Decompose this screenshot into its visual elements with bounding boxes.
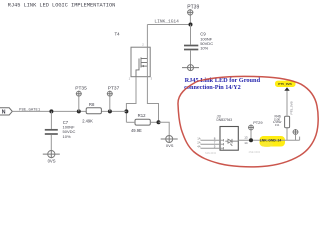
wire gate rail left — [12, 110, 86, 112]
svg-text:2.49K: 2.49K — [82, 118, 93, 123]
testpoint PT28 — [293, 129, 299, 140]
svg-text:13: 13 — [244, 136, 248, 140]
ground 0VS below C9 — [182, 65, 199, 71]
svg-text:49.9E: 49.9E — [131, 128, 142, 133]
svg-text:PT29: PT29 — [253, 120, 262, 125]
svg-text:1%: 1% — [275, 123, 280, 127]
yellow highlighter marks (under ink) — [260, 136, 286, 147]
svg-text:PT39: PT39 — [187, 5, 199, 11]
svg-text:LNK_GND_14: LNK_GND_14 — [260, 138, 282, 142]
wire to ground — [159, 122, 170, 135]
channel bar — [140, 57, 142, 67]
ground 0VS below R12 — [161, 136, 178, 143]
node junction at PT39 — [189, 23, 193, 27]
port tag P8E_GATE1 — [0, 108, 12, 115]
wire top LINK net — [147, 24, 190, 26]
pin stubs inside J3 — [220, 139, 224, 149]
wire C9 top lead — [190, 25, 192, 45]
node PT35 junction — [77, 109, 81, 113]
svg-text:PT5_0VB: PT5_0VB — [289, 101, 293, 114]
wire C9 bottom lead — [190, 50, 192, 64]
svg-text:connection-Pin 14/Y2: connection-Pin 14/Y2 — [184, 85, 241, 91]
svg-text:R12: R12 — [138, 113, 146, 118]
wire gate rail right — [101, 110, 126, 112]
capacitor C7 — [50, 111, 52, 129]
gate lead — [136, 67, 139, 77]
svg-text:RJ45 Link LED for Ground: RJ45 Link LED for Ground — [185, 78, 261, 84]
svg-text:3: 3 — [151, 77, 153, 81]
LED symbol inside J3 — [225, 139, 238, 146]
node R12/source junction — [157, 120, 161, 124]
wire R12 leads — [126, 121, 135, 123]
wire T4 drain vertical — [146, 25, 148, 48]
svg-text:R8: R8 — [89, 102, 95, 107]
svg-text:4A: 4A — [197, 144, 201, 148]
gate bar — [138, 59, 140, 68]
resistor R46 lower lead — [286, 128, 288, 141]
capacitor C9 — [184, 46, 198, 50]
ground 0VS below C7 — [43, 151, 60, 158]
pin 8 wire — [201, 139, 221, 141]
svg-text:4NE 0402: 4NE 0402 — [249, 150, 261, 154]
svg-text:PT5_0VB: PT5_0VB — [278, 82, 292, 86]
rail through T4 — [146, 47, 148, 76]
pin 5 wire — [201, 147, 221, 149]
svg-text:10%: 10% — [63, 134, 71, 139]
red annotation loop — [178, 76, 318, 166]
svg-text:T4: T4 — [115, 32, 121, 37]
svg-text:10%: 10% — [200, 46, 208, 51]
wire source jog — [147, 77, 158, 123]
wire R46 up — [286, 91, 288, 117]
svg-text:0VS: 0VS — [166, 143, 174, 148]
svg-text:SML4032: SML4032 — [205, 151, 217, 155]
svg-text:DNB37943: DNB37943 — [217, 118, 233, 122]
wire C7 bottom lead — [50, 135, 52, 151]
node gate-rail junction — [124, 109, 128, 113]
off-page arrow — [284, 87, 289, 91]
svg-text:14: 14 — [244, 141, 248, 145]
node PT29 junction — [249, 138, 253, 142]
wire gate jog — [126, 77, 136, 123]
svg-text:0VS: 0VS — [48, 158, 56, 163]
body lead — [141, 62, 147, 64]
svg-text:LINK_1G14: LINK_1G14 — [154, 20, 179, 24]
node C7 junction — [49, 109, 53, 113]
source lead — [141, 65, 147, 67]
svg-text:2: 2 — [142, 42, 144, 46]
drain lead — [141, 58, 147, 60]
wire J3 pins 13/14 out — [238, 139, 299, 141]
svg-text:N: N — [2, 110, 6, 116]
testpoint PT39 — [187, 9, 193, 22]
svg-text:1: 1 — [129, 77, 131, 81]
resistor R46 — [285, 116, 290, 127]
source arrow — [141, 65, 144, 67]
svg-text:PT37: PT37 — [108, 85, 120, 91]
svg-text:PT35: PT35 — [75, 85, 87, 91]
pin 7 wire — [201, 143, 221, 145]
svg-text:RJ45 LINK LED LOGIC IMPLEMENTA: RJ45 LINK LED LOGIC IMPLEMENTATION — [8, 2, 116, 8]
node PT37 junction — [108, 109, 112, 113]
